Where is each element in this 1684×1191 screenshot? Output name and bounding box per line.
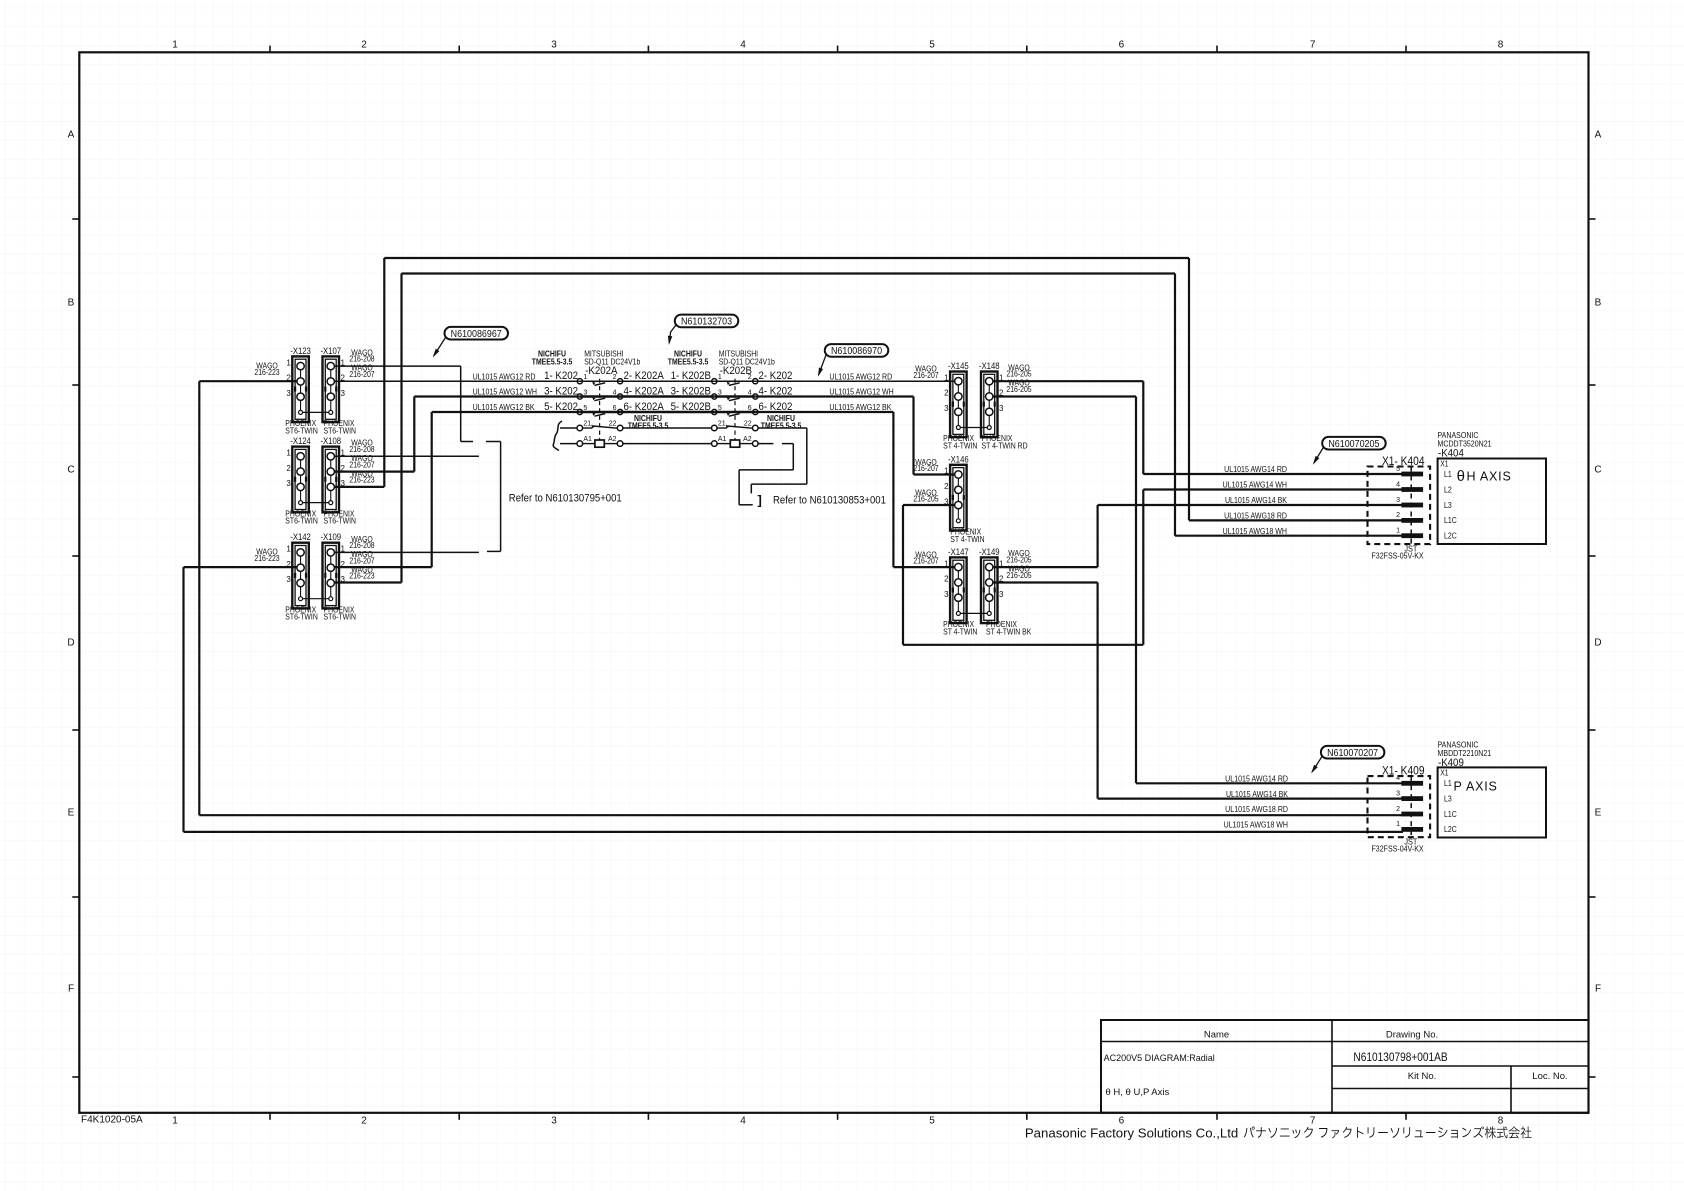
svg-text:-X146: -X146 [948, 454, 969, 465]
wire X148.2 to K409 L1 [993, 397, 1403, 784]
svg-text:UL1015 AWG18 WH: UL1015 AWG18 WH [1224, 820, 1289, 830]
svg-text:6: 6 [1119, 40, 1125, 51]
label MITSUBISHI SD-Q11 DC24V1b -K202A [584, 349, 640, 377]
wire UL1015 AWG12 WH K202B.4 to X146.1 [755, 397, 954, 475]
wire UL1015 AWG12 RD K202B.2 to X145.1 [755, 380, 954, 382]
svg-text:UL1015 AWG12 BK: UL1015 AWG12 BK [829, 402, 892, 412]
connector X123 [285, 345, 317, 435]
callout N610132703 [668, 315, 738, 345]
connector X109 [320, 532, 356, 622]
svg-text:ST6-TWIN: ST6-TWIN [324, 612, 356, 622]
svg-text:-X142: -X142 [290, 532, 311, 543]
svg-text:ST 4-TWIN: ST 4-TWIN [943, 627, 977, 637]
label WAGO 216-205 at X148 pin2 [1006, 378, 1031, 394]
label WAGO 216-205 at X146 pin3 [913, 488, 938, 504]
connector X107 [320, 345, 356, 435]
svg-text:UL1015 AWG14 BK: UL1015 AWG14 BK [1225, 496, 1288, 506]
label WAGO 216-208 at X108 pin1 [349, 438, 374, 454]
svg-text:H AXIS: H AXIS [1467, 470, 1512, 484]
svg-text:N610130798+001AB: N610130798+001AB [1353, 1051, 1447, 1064]
svg-text:5: 5 [929, 1116, 935, 1127]
link wire X145-X148 [960, 427, 987, 429]
wire X109.2 to K202A.5 [334, 412, 579, 567]
svg-text:ST 4-TWIN RD: ST 4-TWIN RD [982, 441, 1029, 451]
svg-text:TMEE5.5-3.5: TMEE5.5-3.5 [628, 421, 669, 431]
connector X108 [320, 436, 356, 526]
svg-text:B: B [1595, 298, 1602, 309]
svg-text:ST6-TWIN: ST6-TWIN [285, 516, 317, 526]
label 5- K202 / 6- K202A row3 [544, 402, 793, 414]
svg-text:4: 4 [740, 40, 746, 51]
svg-text:4: 4 [740, 1116, 746, 1127]
svg-text:UL1015 AWG12 RD: UL1015 AWG12 RD [473, 372, 536, 382]
svg-text:-X107: -X107 [320, 345, 341, 356]
wire X149.1 to K404 L3 [993, 505, 1403, 567]
svg-text:5: 5 [718, 405, 722, 412]
label MITSUBISHI SD-Q11 DC24V1b -K202B [719, 349, 775, 377]
servo driver K409 (PANASONIC MBDDT2210N21) [1438, 740, 1547, 838]
svg-text:C: C [67, 465, 74, 476]
svg-text:P AXIS: P AXIS [1454, 780, 1498, 794]
svg-text:-K202A: -K202A [585, 366, 617, 378]
svg-text:2: 2 [944, 575, 949, 584]
svg-text:-X123: -X123 [290, 345, 311, 356]
link wire X123-X107 [303, 411, 329, 413]
svg-text:216-207: 216-207 [913, 463, 938, 473]
label WAGO 216-223 at X108 pin3 [349, 469, 374, 485]
svg-text:UL1015 AWG14 BK: UL1015 AWG14 BK [1226, 789, 1289, 799]
label NICHIFU TMEE5.5-3.5 (K202A input) [532, 349, 573, 367]
svg-text:4: 4 [1396, 481, 1400, 488]
svg-text:A: A [1595, 130, 1602, 141]
svg-text:8: 8 [1498, 1116, 1504, 1127]
svg-text:3: 3 [583, 389, 587, 396]
svg-text:ST6-TWIN: ST6-TWIN [324, 516, 356, 526]
svg-text:1: 1 [286, 545, 291, 554]
callout N610070205 [1313, 437, 1386, 465]
label WAGO 216-223 at X123 [254, 361, 279, 377]
cable break squiggle at K202A left [553, 421, 562, 451]
svg-text:216-207: 216-207 [913, 556, 938, 566]
svg-text:2: 2 [1396, 806, 1400, 813]
svg-text:2: 2 [1396, 512, 1400, 519]
svg-text:B: B [68, 298, 75, 309]
svg-text:1: 1 [1396, 821, 1400, 828]
svg-text:L2: L2 [1444, 485, 1452, 495]
connector X142 [285, 532, 317, 622]
svg-text:UL1015 AWG12 WH: UL1015 AWG12 WH [473, 387, 538, 397]
svg-text:3: 3 [1396, 497, 1400, 504]
label NICHIFU TMEE5.5-3.5 (K202B 22 output) [761, 413, 802, 430]
connector X1-K404 (JST F32FSS-05V-KX) [1368, 455, 1431, 561]
wire K202A.4 to K202B.3 row2 [620, 395, 714, 398]
label 3- K202 / 4- K202A row2 [544, 386, 793, 398]
wire outer loop X108.3 to K404 L1C [334, 258, 1403, 520]
svg-text:L1: L1 [1444, 779, 1452, 789]
svg-text:216-223: 216-223 [254, 367, 279, 377]
svg-text:Loc. No.: Loc. No. [1532, 1071, 1567, 1082]
svg-text:A: A [68, 130, 75, 141]
svg-text:F: F [1595, 984, 1601, 995]
svg-text:216-205: 216-205 [913, 494, 938, 504]
wire UL1015 AWG12 RD X107.2 to K202A.1 [334, 380, 579, 382]
wire K202A.A2 to K202B.A1 [623, 443, 712, 445]
svg-text:4: 4 [613, 389, 617, 396]
svg-text:2: 2 [944, 482, 949, 491]
svg-text:L3: L3 [1444, 500, 1452, 510]
svg-text:21: 21 [583, 420, 591, 427]
svg-text:1: 1 [172, 40, 178, 51]
svg-text:2: 2 [944, 389, 949, 398]
callout N610086967 [433, 327, 508, 358]
svg-text:3: 3 [286, 575, 291, 584]
svg-text:UL1015 AWG18 WH: UL1015 AWG18 WH [1223, 526, 1288, 536]
svg-text:F4K1020-05A: F4K1020-05A [81, 1115, 143, 1126]
svg-text:A1: A1 [583, 436, 592, 443]
svg-text:2: 2 [286, 464, 291, 473]
svg-text:216-207: 216-207 [349, 369, 374, 379]
svg-text:N610086970: N610086970 [831, 345, 883, 357]
svg-text:22: 22 [744, 420, 752, 427]
svg-text:-X108: -X108 [320, 436, 341, 447]
svg-text:UL1015 AWG18 RD: UL1015 AWG18 RD [1224, 511, 1287, 521]
svg-text:22: 22 [609, 420, 617, 427]
svg-text:L1C: L1C [1444, 516, 1457, 526]
label 1- K202 / 2- K202A row1 [544, 371, 793, 383]
svg-text:Refer to N610130853+001: Refer to N610130853+001 [773, 495, 886, 507]
link wire X124-X108 [303, 502, 329, 504]
link wire X142-X109 [303, 598, 329, 600]
label NICHIFU TMEE5.5-3.5 (K202B input) [668, 349, 709, 367]
svg-text:5: 5 [583, 405, 587, 412]
svg-text:TMEE5.5-3.5: TMEE5.5-3.5 [532, 357, 573, 367]
svg-text:3: 3 [718, 389, 722, 396]
refer cable bracket N610130795 [487, 442, 501, 552]
svg-text:1: 1 [1396, 528, 1400, 535]
title block [1101, 1020, 1589, 1113]
svg-text:UL1015 AWG18 RD: UL1015 AWG18 RD [1225, 805, 1288, 815]
svg-text:3: 3 [944, 404, 949, 413]
svg-text:F: F [68, 984, 74, 995]
callout N610086970 [818, 344, 888, 377]
svg-text:N610070205: N610070205 [1328, 438, 1379, 450]
svg-text:2: 2 [361, 1116, 367, 1127]
svg-text:3: 3 [1396, 790, 1400, 797]
connector X124 [285, 436, 317, 526]
connector X147 [943, 546, 977, 636]
svg-text:X1- K409: X1- K409 [1382, 765, 1424, 778]
svg-text:3: 3 [999, 404, 1004, 413]
svg-text:A1: A1 [718, 436, 727, 443]
svg-text:2: 2 [361, 40, 367, 51]
connector X146 [944, 454, 984, 544]
svg-text:1: 1 [286, 449, 291, 458]
svg-text:-X124: -X124 [290, 436, 311, 447]
svg-text:1: 1 [286, 358, 291, 367]
label WAGO 216-208 at X107 pin1 [349, 348, 374, 364]
label WAGO 216-207 at X146 pin1 [913, 457, 938, 473]
svg-text:TMEE5.5-3.5: TMEE5.5-3.5 [761, 421, 802, 431]
wire X142.2 to K409 L2C route [184, 567, 1404, 832]
label WAGO 216-207 at X145 pin1 [913, 364, 938, 380]
svg-text:N610132703: N610132703 [681, 316, 732, 328]
svg-text:7: 7 [1310, 1116, 1316, 1127]
svg-text:3: 3 [341, 389, 346, 398]
svg-text:C: C [1594, 465, 1601, 476]
svg-text:ST6-TWIN: ST6-TWIN [324, 426, 356, 436]
svg-text:θ: θ [1457, 468, 1465, 485]
svg-text:E: E [68, 808, 75, 819]
svg-text:3: 3 [551, 40, 557, 51]
svg-text:UL1015 AWG12 WH: UL1015 AWG12 WH [829, 387, 894, 397]
wire K202B.A2 to refer cable N610130853 [739, 444, 793, 505]
text Refer to N610130853+001 [758, 493, 887, 508]
label WAGO 216-205 at X149 pin2 [1006, 564, 1031, 580]
wire K202B.22 to refer cable N610130853 [751, 428, 807, 493]
wire X108.1 to refer cable [334, 455, 478, 457]
label WAGO 216-208 at X109 pin1 [349, 534, 374, 550]
svg-text:]: ] [758, 493, 762, 508]
svg-text:L2C: L2C [1444, 825, 1457, 835]
svg-text:UL1015 AWG14 WH: UL1015 AWG14 WH [1223, 480, 1288, 490]
svg-text:6: 6 [748, 405, 752, 412]
svg-text:3: 3 [286, 479, 291, 488]
svg-text:ST 4-TWIN: ST 4-TWIN [943, 441, 977, 451]
svg-text:-X148: -X148 [979, 360, 1000, 371]
wire K202A.21 left stub [560, 427, 577, 429]
wire X148.1 to K404 L1 [993, 381, 1403, 474]
svg-text:L1: L1 [1444, 469, 1452, 479]
svg-text:X1- K404: X1- K404 [1382, 455, 1424, 468]
wire K202A.2 to K202B.1 row1 [620, 380, 714, 382]
svg-text:-X145: -X145 [948, 360, 969, 371]
connector X149 [979, 546, 1032, 636]
link wire X147-X149 [960, 612, 987, 614]
svg-text:216-207: 216-207 [913, 370, 938, 380]
label WAGO 216-207 at X147 pin1 [913, 550, 938, 566]
svg-text:ST6-TWIN: ST6-TWIN [285, 612, 317, 622]
svg-text:6: 6 [613, 405, 617, 412]
svg-text:A2: A2 [608, 436, 617, 443]
svg-text:3: 3 [999, 590, 1004, 599]
label WAGO 216-207 at X108 pin2 [349, 453, 374, 469]
callout N610070207 [1311, 746, 1384, 774]
svg-text:D: D [67, 638, 74, 649]
svg-text:E: E [1595, 808, 1602, 819]
svg-text:216-223: 216-223 [349, 571, 374, 581]
svg-text:3: 3 [551, 1116, 557, 1127]
svg-text:UL1015 AWG12 RD: UL1015 AWG12 RD [829, 372, 892, 382]
svg-text:216-223: 216-223 [254, 553, 279, 563]
svg-text:X1: X1 [1440, 768, 1448, 778]
wire K202A.6 to K202B.5 row3 [620, 411, 714, 414]
svg-text:-X149: -X149 [979, 546, 1000, 557]
svg-text:A2: A2 [743, 436, 752, 443]
label WAGO 216-207 at X109 pin2 [349, 549, 374, 565]
svg-text:-K202B: -K202B [720, 366, 752, 378]
svg-text:ST 4-TWIN: ST 4-TWIN [950, 534, 984, 544]
label WAGO 216-207 at X107 pin2 [349, 363, 374, 379]
svg-text:-X109: -X109 [320, 532, 341, 543]
connector X1-K409 (JST F32FSS-04V-KX) [1368, 765, 1431, 854]
svg-text:F32FSS-04V-KX: F32FSS-04V-KX [1372, 844, 1425, 854]
svg-text:Drawing No.: Drawing No. [1386, 1030, 1438, 1041]
wire X123.2 to K409 L1C route [199, 381, 1403, 815]
label NICHIFU TMEE5.5-3.5 (K202A 22 output) [628, 413, 669, 430]
svg-text:L2C: L2C [1444, 531, 1457, 541]
svg-text:ST6-TWIN: ST6-TWIN [285, 426, 317, 436]
svg-text:L1C: L1C [1444, 809, 1457, 819]
connector X145 [943, 360, 977, 450]
svg-text:3: 3 [286, 389, 291, 398]
wire inner loop X109.3 to K404 L2C [334, 274, 1403, 583]
svg-text:F32FSS-05V-KX: F32FSS-05V-KX [1372, 551, 1425, 561]
wire X107.1 to refer cable [334, 366, 500, 441]
svg-text:Name: Name [1204, 1030, 1229, 1041]
wire K202A.22 to K202B.21 [623, 427, 712, 429]
svg-text:UL1015 AWG14 RD: UL1015 AWG14 RD [1225, 774, 1288, 784]
relay contactor K202B [712, 374, 759, 447]
wire UL1015 AWG12 BK K202B.6 to X147.1 [755, 412, 954, 567]
svg-text:7: 7 [1310, 40, 1316, 51]
wire X109.1 to refer cable [334, 551, 478, 553]
svg-text:TMEE5.5-3.5: TMEE5.5-3.5 [668, 357, 709, 367]
label WAGO 216-205 at X148 pin1 [1006, 363, 1031, 379]
svg-text:Refer to N610130795+001: Refer to N610130795+001 [509, 493, 622, 505]
wire K202A.A1 left stub [560, 443, 577, 445]
connector X148 [979, 360, 1028, 450]
label WAGO 216-205 at X149 pin1 [1006, 549, 1031, 565]
svg-text:Panasonic Factory Solutions Co: Panasonic Factory Solutions Co.,Ltd [1025, 1126, 1238, 1141]
svg-text:4: 4 [748, 389, 752, 396]
label WAGO 216-223 at X109 pin3 [349, 565, 374, 581]
svg-text:θ H, θ U,P Axis: θ H, θ U,P Axis [1106, 1087, 1170, 1098]
svg-text:21: 21 [718, 420, 726, 427]
svg-text:216-205: 216-205 [1006, 384, 1031, 394]
wire X149.2 to K409 L3 [993, 583, 1403, 799]
svg-text:216-223: 216-223 [349, 475, 374, 485]
svg-text:N610086967: N610086967 [451, 328, 502, 340]
svg-text:AC200V5 DIAGRAM:Radial: AC200V5 DIAGRAM:Radial [1104, 1053, 1215, 1063]
svg-text:Kit No.: Kit No. [1408, 1071, 1437, 1082]
svg-text:5: 5 [929, 40, 935, 51]
svg-text:-X147: -X147 [948, 546, 969, 557]
svg-text:L3: L3 [1444, 794, 1452, 804]
svg-text:X1: X1 [1440, 459, 1448, 469]
svg-text:ST 4-TWIN BK: ST 4-TWIN BK [986, 627, 1032, 637]
label WAGO 216-223 at X142 [254, 547, 279, 563]
svg-text:UL1015 AWG14 RD: UL1015 AWG14 RD [1224, 465, 1287, 475]
svg-text:216-205: 216-205 [1006, 570, 1031, 580]
relay contactor K202A [577, 374, 623, 447]
svg-text:3: 3 [944, 590, 949, 599]
svg-text:UL1015 AWG12 BK: UL1015 AWG12 BK [473, 402, 536, 412]
svg-text:D: D [1594, 638, 1601, 649]
wire X108.2 to K202A.3 [334, 397, 579, 472]
svg-text:8: 8 [1498, 40, 1504, 51]
servo driver K404 (PANASONIC MCDDT3520N21) [1438, 430, 1547, 544]
wire X146.3 to K404 L2 [903, 490, 1403, 645]
svg-text:N610070207: N610070207 [1327, 747, 1378, 759]
svg-text:1: 1 [172, 1116, 178, 1127]
